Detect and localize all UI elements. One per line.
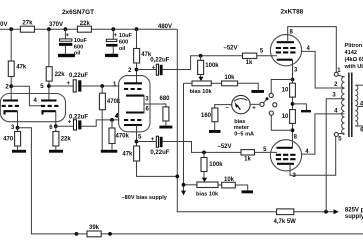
svg-text:0–5 mA: 0–5 mA [234, 132, 254, 138]
svg-text:0,22uF: 0,22uF [69, 114, 88, 120]
tube V2a grid (dashed) [124, 88, 141, 90]
wire V3 plate to transformer terminal 1 [288, 27, 337, 73]
wire secondary bottom stub [355, 126, 363, 134]
svg-text:39k: 39k [89, 225, 100, 231]
wire 1k to lower KT88 grid pin 5 [255, 147, 278, 153]
capacitor 10uF 600 oil (first) [58, 29, 88, 57]
svg-text:oil: oil [74, 51, 81, 57]
resistor 100k (upper) [198, 56, 220, 77]
wire 1k to KT88 grid pin 5 [257, 49, 277, 56]
node 825V [324, 210, 328, 214]
resistor 10k (upper) [222, 75, 238, 86]
node grid 1 driver [100, 82, 117, 88]
switch throw lower contact [269, 111, 273, 115]
switch throw upper contact [269, 93, 273, 97]
resistor 22k (cathodyne plate load, vertical) [46, 29, 65, 99]
svg-text:4,7k 5W: 4,7k 5W [274, 219, 297, 225]
svg-text:–80V bias supply: –80V bias supply [122, 195, 168, 201]
transformer tap 3 (CT) wire to 825V [326, 93, 344, 212]
resistor 680 (driver common cathode) [160, 96, 171, 126]
svg-text:1k: 1k [246, 60, 253, 66]
resistor 47k (driver lower plate load) [122, 146, 177, 176]
svg-text:10: 10 [282, 114, 289, 120]
resistor 22k (rail) [77, 21, 91, 32]
node upper bias feed [199, 54, 203, 58]
tube V3 control grid (dashed) [276, 51, 296, 53]
node driver pin 5 [135, 135, 142, 144]
wire NFB from cathode node down [18, 128, 77, 234]
svg-text:380V: 380V [0, 22, 8, 28]
tube V4 plate [277, 163, 294, 165]
svg-text:27k: 27k [22, 20, 33, 26]
svg-text:0,22uF: 0,22uF [150, 58, 169, 64]
svg-text:22k: 22k [55, 72, 66, 78]
potentiometer bias 10k (lower) [196, 182, 219, 197]
wire B+ rail left [0, 28, 20, 30]
svg-text:22k: 22k [61, 136, 72, 142]
node line B lower [182, 183, 186, 187]
ground (upper 10k) [251, 90, 264, 93]
node 10uF cap 2 junction [111, 27, 115, 31]
resistor 10 (upper cathode sense) [282, 80, 296, 110]
switch throw middle contact [273, 103, 277, 107]
wire lower 10k to ground [235, 185, 247, 190]
tube V3 upper KT88 envelope [270, 35, 301, 66]
resistor 160 (meter shunt) [201, 105, 232, 130]
tube V1b cathode [43, 111, 56, 114]
tube V3 plate [277, 41, 294, 43]
svg-text:0,22uF: 0,22uF [69, 73, 88, 79]
ground (lower 10k) [242, 190, 254, 193]
wire secondary tap stub [358, 102, 363, 108]
svg-text:825V plate: 825V plate [345, 207, 363, 213]
svg-text:470: 470 [3, 137, 14, 143]
wire V1a cathode lead to pin 3 [17, 111, 19, 128]
svg-text:(4kΩ 65W: (4kΩ 65W [345, 57, 363, 63]
meter bias meter 0-5 mA [226, 95, 257, 137]
svg-text:100k: 100k [205, 63, 219, 69]
svg-text:4142: 4142 [345, 50, 357, 56]
node 370V [47, 22, 63, 31]
tube V4 cathode [277, 147, 293, 149]
potentiometer bias 10k (upper) [190, 81, 213, 95]
wire V4 plate pin 3 to transformer terminal 5 [290, 137, 336, 180]
tube V1a plate [3, 99, 18, 101]
node driver pin 2 [128, 68, 138, 75]
svg-text:2xKT88: 2xKT88 [281, 9, 304, 16]
svg-text:+: + [252, 106, 256, 112]
label 825V plate supply [345, 207, 363, 220]
svg-text:10k: 10k [224, 75, 235, 81]
svg-text:10: 10 [282, 88, 289, 94]
svg-text:47k: 47k [16, 65, 27, 71]
wire NFB to right edge [101, 233, 363, 235]
capacitor C1 0,22uF (cathodyne plate out) [49, 73, 120, 92]
svg-text:–52V: –52V [224, 45, 238, 51]
svg-text:meter: meter [234, 125, 250, 131]
node pin 3 [11, 125, 20, 131]
svg-text:+: + [65, 33, 69, 39]
node NFB right [108, 232, 112, 236]
svg-text:Plitron: Plitron [345, 43, 363, 49]
node rail-47k junction [9, 27, 13, 31]
transformer secondary winding [355, 85, 358, 126]
tube V2 envelope 6SN7 driver [119, 76, 150, 132]
node lower bias feed [202, 151, 206, 155]
ground (cathode chain) [301, 110, 311, 112]
wire rail to 370V node [35, 28, 78, 30]
node 480V line lower tap [175, 175, 179, 179]
node 10uF cap 1 junction [64, 27, 68, 31]
wire V3 cathode lead pin 3 [293, 60, 299, 80]
svg-text:10uF: 10uF [119, 33, 133, 39]
resistor 10 (lower cathode sense) [282, 110, 296, 148]
ground (470k pair) [101, 150, 118, 153]
wire V2b plate lead [136, 125, 138, 146]
tube V1a cathode [5, 111, 18, 114]
wire throw lower to lower cathode node [271, 115, 292, 130]
transformer terminal 1 [334, 68, 341, 77]
wire direct coupling pin2 to grid4 [11, 86, 41, 106]
svg-text:600: 600 [74, 44, 83, 50]
wire throw upper to cathode node [271, 80, 292, 94]
node lower cathode [291, 128, 295, 132]
tube V3 cathode [277, 59, 293, 61]
tube V1 envelope 6SN7 [0, 94, 65, 122]
tube V4 lower KT88 envelope [270, 140, 301, 171]
resistor 10k (lower) [222, 177, 236, 188]
tube V2b grid (dashed) [124, 119, 141, 121]
wire cathodes to 680 [144, 104, 166, 107]
resistor 470 (V1a cathode) [3, 128, 20, 150]
tube V3 screen grid (dashed) [276, 47, 296, 49]
wire to 39k [77, 233, 88, 235]
svg-text:+: + [151, 137, 155, 143]
tube V4 control grid (dashed) [276, 154, 296, 156]
capacitor C3 0,22uF (to upper KT88) [137, 56, 243, 75]
resistor 470k (upper grid leak) [99, 86, 121, 150]
node grid 4 driver [110, 113, 119, 121]
svg-text:+: + [152, 65, 156, 71]
wire rail to 480V corner [91, 28, 177, 30]
wire V1b cathode lead to pin 6 [55, 111, 57, 126]
switch common contact [260, 102, 264, 106]
transformer terminal 5 [334, 133, 342, 143]
resistor 100k (lower) [201, 152, 223, 178]
wire V3 screen pin 4 to UL tap 2 [302, 46, 345, 88]
wire V4 screen pin 4 to UL tap 4 [302, 114, 345, 155]
wiper arrow (lower pot) [202, 178, 207, 182]
capacitor C2 0,22uF (cathodyne cathode out) [56, 114, 120, 130]
ground (680) [159, 126, 172, 129]
node pin 6 [49, 124, 57, 131]
svg-text:600: 600 [119, 40, 128, 46]
resistor 47k (input stage plate load) [8, 29, 27, 99]
wire pot2 to -80V line B [184, 184, 197, 186]
svg-text:2x6SN7GT: 2x6SN7GT [62, 9, 94, 16]
wire pot2 to 10k lower [218, 184, 222, 186]
resistor 27k [20, 20, 34, 32]
node pin5 plate junction [40, 84, 51, 90]
node upper cathode [291, 78, 295, 82]
svg-text:–52V: –52V [218, 144, 232, 150]
svg-text:bias 10k: bias 10k [196, 191, 219, 197]
ground (160) [209, 130, 221, 133]
resistor 39k (feedback) [87, 225, 101, 237]
tube V1b grid (dashed) [41, 105, 58, 107]
wire -80V line B [183, 83, 185, 191]
wire pot to -80V line B [184, 82, 193, 84]
resistor 47k (driver upper plate load) [134, 29, 152, 83]
transformer primary winding [342, 77, 345, 135]
resistor 22k (cathodyne cathode load) [53, 126, 71, 150]
tube V4 screen grid (dashed) [276, 158, 296, 160]
resistor 470k (lower grid leak) [109, 120, 130, 150]
svg-text:370V: 370V [49, 22, 63, 28]
svg-text:160: 160 [201, 113, 212, 119]
svg-text:10uF: 10uF [74, 38, 88, 44]
tube V1a grid (dashed) [2, 105, 19, 107]
svg-text:10k: 10k [224, 177, 235, 183]
svg-text:470k: 470k [116, 134, 130, 140]
tube V2 cathodes bracket [126, 95, 144, 114]
wire mid node to ground [293, 104, 307, 110]
transformer core [349, 73, 352, 138]
wire secondary top stub [355, 84, 363, 86]
svg-text:0,22uF: 0,22uF [150, 150, 169, 156]
switch arm [264, 97, 269, 103]
svg-text:bias 10k: bias 10k [190, 89, 213, 95]
svg-text:47k: 47k [122, 151, 133, 157]
svg-text:+: + [114, 33, 118, 39]
svg-text:680: 680 [160, 96, 171, 102]
wire pot1 to 10k [211, 82, 221, 84]
wiper arrow (upper pot) [198, 77, 203, 81]
wire 480V drop line A [177, 29, 276, 212]
wire terminal 1 to winding [338, 75, 344, 77]
label Plitron 4142 [344, 43, 363, 70]
svg-text:1k: 1k [244, 156, 251, 162]
svg-text:22k: 22k [80, 21, 91, 27]
resistor 4,7k 5W [274, 209, 335, 225]
wire 10k to ground [238, 83, 259, 90]
svg-text:480V: 480V [158, 24, 172, 30]
ground (470) [12, 150, 26, 153]
capacitor 10uF 600 oil (second) [105, 29, 133, 57]
tube V1b plate [41, 99, 57, 101]
node cathode chain mid [291, 102, 295, 106]
tube V2b plate [124, 124, 142, 126]
node NFB left [75, 232, 79, 236]
tube V2a plate [124, 82, 142, 84]
svg-text:+: + [68, 120, 72, 126]
wire terminal 5 to winding [338, 132, 344, 135]
resistor 1k (lower grid stopper) [241, 150, 255, 163]
svg-text:with UL taps: with UL taps [344, 64, 363, 70]
arrow 825V plate supply [334, 209, 339, 214]
resistor 1k (upper grid stopper) [243, 53, 257, 66]
wire meter plus to switch [250, 103, 260, 105]
svg-text:bias: bias [234, 119, 245, 125]
svg-text:oil: oil [119, 46, 126, 52]
arrow to -80V supply [181, 191, 186, 196]
svg-text:supply: supply [345, 214, 363, 220]
node pin2 plate junction [5, 84, 13, 90]
svg-text:100k: 100k [209, 162, 223, 168]
ground (22k) [49, 150, 63, 153]
svg-text:+: + [67, 81, 71, 87]
node 47k driver load junction [135, 27, 139, 31]
capacitor C4 0,22uF (to lower KT88) [137, 136, 242, 156]
